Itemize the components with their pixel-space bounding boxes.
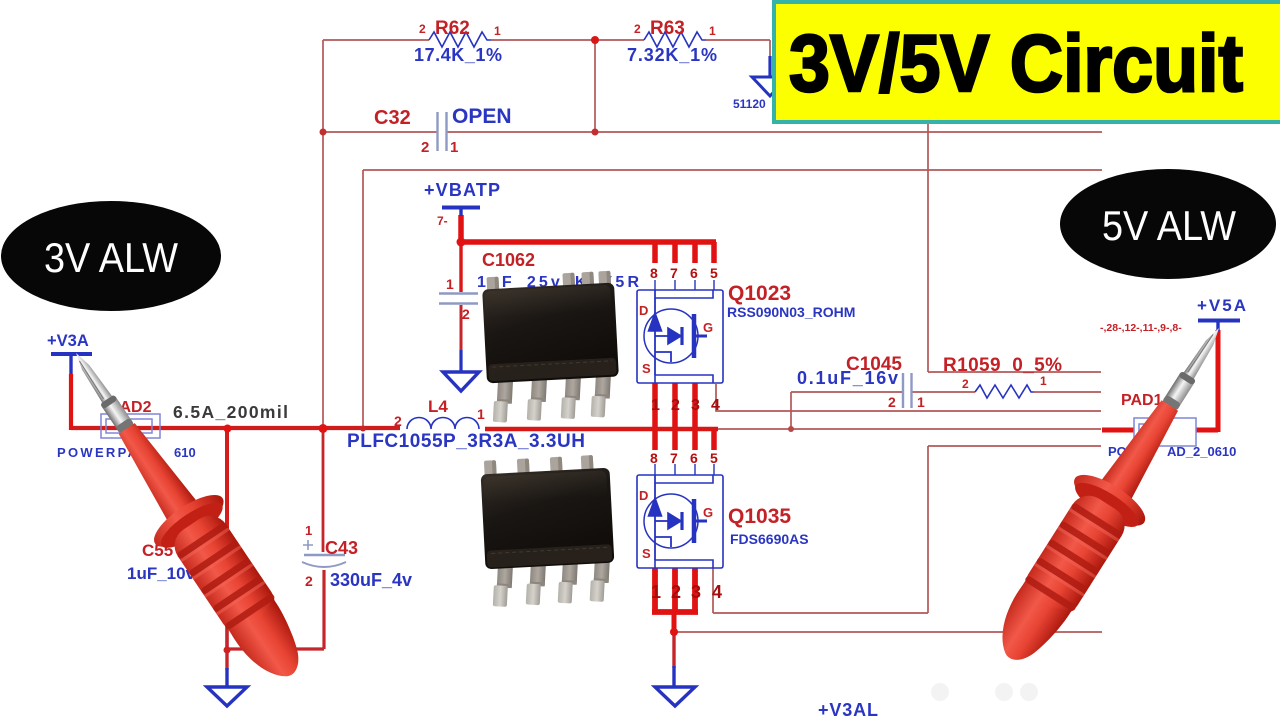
wire C55 lower vertical to gnd junction: [225, 560, 229, 650]
wire vertical x=928 gate2: [927, 446, 929, 613]
svg-text:C32: C32: [374, 107, 411, 129]
node C32 left: [320, 129, 327, 136]
multimeter probe right: [975, 306, 1254, 680]
svg-text:17.4K_1%: 17.4K_1%: [414, 45, 502, 65]
svg-text:2: 2: [421, 139, 429, 156]
svg-text:51120: 51120: [733, 97, 766, 111]
wire C1045/R1059 net y=392: [791, 391, 1101, 393]
svg-text:6: 6: [690, 450, 698, 466]
svg-text:PLFC1055P_3R3A_3.3UH: PLFC1055P_3R3A_3.3UH: [347, 431, 585, 452]
svg-text:7: 7: [670, 265, 678, 281]
wire y=446 gate2 to PAD: [928, 445, 1101, 447]
svg-text:1: 1: [305, 523, 312, 538]
wire main rail left y=428: [71, 426, 400, 430]
svg-text:PAD1: PAD1: [1121, 392, 1163, 409]
svg-text:610: 610: [174, 445, 196, 460]
svg-text:1: 1: [709, 24, 716, 38]
wire Q1035 gnd stub: [672, 632, 675, 668]
svg-text:1: 1: [1040, 374, 1047, 388]
wire gnd junction down: [225, 650, 228, 670]
svg-text:S: S: [642, 546, 651, 561]
svg-text:7-: 7-: [437, 214, 448, 228]
svg-text:8: 8: [650, 450, 658, 466]
wire C1062 pin2 vertical: [460, 305, 463, 352]
svg-text:7.32K_1%: 7.32K_1%: [627, 45, 717, 65]
svg-text:3: 3: [691, 397, 700, 414]
transistor Q1035: [637, 464, 723, 568]
svg-text:0.1uF_16v: 0.1uF_16v: [797, 368, 898, 388]
ground below C1062: [459, 350, 462, 371]
wire +VBATP vertical to top rail: [458, 215, 464, 242]
wire feedback sense y=170: [363, 169, 1102, 171]
svg-text:AD_2_0610: AD_2_0610: [1167, 444, 1236, 459]
wire stub above ground 51120: [769, 40, 771, 58]
svg-text:2: 2: [419, 22, 426, 36]
node C32 mid: [592, 129, 599, 136]
wire +V3A vertical: [69, 374, 73, 430]
capacitor C32 plates: [438, 112, 447, 151]
capacitor C1045 plates: [903, 373, 912, 408]
svg-text:330uF_4v: 330uF_4v: [330, 570, 412, 590]
svg-text:+V5A: +V5A: [1197, 296, 1246, 315]
svg-text:2: 2: [394, 413, 402, 429]
svg-text:2: 2: [962, 377, 969, 391]
wire Q1035 drain bars top: [655, 430, 714, 450]
svg-text:D: D: [639, 488, 648, 503]
svg-text:+V3A: +V3A: [47, 332, 89, 350]
svg-text:4: 4: [711, 397, 720, 414]
svg-text:R62: R62: [435, 18, 470, 39]
svg-text:1: 1: [477, 406, 485, 422]
node rail C1045: [788, 426, 794, 432]
transistor Q1035 labels: [650, 450, 718, 466]
svg-text:2: 2: [462, 306, 470, 322]
svg-text:1: 1: [494, 24, 501, 38]
node rail C43 branch: [319, 424, 328, 433]
wire C32 net y=132: [323, 131, 1102, 133]
wire top net R62/R63 y=40: [323, 39, 770, 41]
svg-text:3V ALW: 3V ALW: [44, 234, 178, 281]
callout oval 5V ALW: [1060, 169, 1276, 279]
svg-text:1: 1: [651, 397, 660, 414]
ground bottom left: [225, 668, 228, 686]
wire Q1023 source bars bottom: [655, 383, 695, 428]
svg-text:2: 2: [671, 397, 680, 414]
svg-text:1: 1: [917, 394, 925, 410]
capacitor C43 polarized plates: [304, 554, 345, 556]
svg-text:4: 4: [712, 582, 722, 602]
wire Q1035 source stem: [672, 614, 677, 634]
callout oval 3V ALW: [1, 201, 221, 311]
wire rail thin segment y=429: [718, 428, 1101, 430]
resistor R62: [429, 32, 491, 47]
wire C43 lower vertical and across to gnd junction: [227, 570, 324, 649]
node rail sense: [360, 426, 366, 432]
resistor R63: [644, 32, 706, 47]
IC chip photo bottom (SOIC-8): [480, 454, 617, 608]
ground below Q1035: [672, 666, 675, 686]
wire y=372 to PAD area: [928, 371, 1101, 373]
svg-text:6.5A_200mil: 6.5A_200mil: [173, 402, 288, 422]
svg-text:3V/5V Circuit: 3V/5V Circuit: [789, 19, 1243, 109]
node gnd left: [224, 647, 231, 654]
transistor Q1023: [637, 280, 723, 383]
svg-text:C1062: C1062: [482, 250, 535, 270]
wire Q1035 source bars + U bottom: [652, 568, 698, 612]
pad box PAD2 left: [101, 414, 160, 438]
svg-text:1: 1: [651, 582, 661, 602]
node Q1035 output: [670, 628, 678, 636]
wire vertical x=791 down to rail: [790, 392, 792, 429]
inductor L4: [407, 418, 479, 430]
IC chip photo top (SOIC-8): [482, 271, 621, 424]
svg-text:C43: C43: [325, 538, 358, 558]
svg-text:D: D: [639, 303, 648, 318]
svg-text:2: 2: [634, 22, 641, 36]
svg-text:6: 6: [690, 265, 698, 281]
svg-text:5V ALW: 5V ALW: [1102, 202, 1236, 249]
svg-text:RSS090N03_ROHM: RSS090N03_ROHM: [727, 304, 855, 320]
wire top rail y=242: [461, 239, 716, 245]
wire Q1023 drain bars top: [655, 242, 714, 263]
svg-text:+V3AL: +V3AL: [818, 700, 878, 720]
pad box PAD right: [1134, 418, 1196, 446]
node rail C55 branch: [224, 425, 232, 433]
transistor Q1023 labels: [650, 265, 718, 281]
ground 51120 below R63: [768, 56, 771, 76]
svg-text:R63: R63: [650, 18, 685, 39]
node VBATP rail: [457, 238, 466, 247]
svg-text:8: 8: [650, 265, 658, 281]
svg-text:Q1023: Q1023: [728, 282, 791, 305]
wire vertical x=363 sense to rail: [362, 170, 364, 427]
svg-text:2: 2: [305, 573, 313, 589]
svg-text:Q1035: Q1035: [728, 505, 791, 528]
svg-text:G: G: [703, 320, 713, 335]
power symbol +V3A: [51, 352, 92, 356]
wire vertical x=928 from under banner: [927, 122, 929, 372]
svg-text:R1059 0_5%: R1059 0_5%: [943, 355, 1062, 376]
resistor R1059: [975, 385, 1034, 398]
svg-text:S: S: [642, 361, 651, 376]
svg-text:5: 5: [710, 450, 718, 466]
capacitor C1062 plates: [439, 294, 478, 304]
svg-text:2: 2: [671, 582, 681, 602]
watermark: [931, 683, 1038, 701]
svg-text:FDS6690AS: FDS6690AS: [730, 531, 809, 547]
svg-text:5: 5: [710, 265, 718, 281]
svg-text:1: 1: [446, 276, 454, 292]
svg-text:-,28-,12-,11-,9-,8-: -,28-,12-,11-,9-,8-: [1100, 322, 1182, 334]
wire C43 upper vertical: [322, 429, 325, 552]
wire PAD to +V5A thick: [1102, 330, 1218, 432]
wire vertical x=595 R62/R63 junction down to C32 net: [594, 40, 596, 132]
wire Q1023 gate pin4 y=411: [716, 384, 1101, 411]
svg-text:L4: L4: [428, 397, 448, 416]
wire Q1035 gate pin4 y=613: [713, 568, 928, 613]
svg-text:2: 2: [888, 394, 896, 410]
svg-text:7: 7: [670, 450, 678, 466]
power symbol +V5A: [1198, 319, 1240, 323]
wire vertical x=323 from top net to rail: [322, 40, 324, 427]
multimeter probe left: [42, 330, 325, 697]
wire C55 branch vertical x=227: [225, 429, 229, 545]
wire main rail right of L4: [485, 427, 718, 432]
wire output sense y=632: [674, 631, 1102, 633]
svg-text:G: G: [703, 505, 713, 520]
title banner 3V/5V Circuit: [774, 2, 1280, 122]
svg-text:3: 3: [691, 582, 701, 602]
wire C1062 pin1 vertical: [459, 242, 462, 292]
node R62/R63 top: [591, 36, 599, 44]
svg-text:OPEN: OPEN: [452, 105, 512, 128]
svg-text:1: 1: [450, 139, 458, 156]
power symbol +VBATP: [442, 206, 480, 210]
